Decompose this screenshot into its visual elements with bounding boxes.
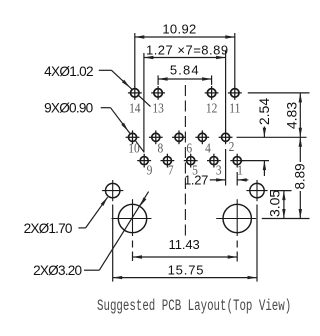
svg-text:7: 7 [168, 162, 174, 177]
pin number label 5 [192, 162, 198, 177]
pin number label 12 [206, 100, 217, 115]
pin number label 7 [168, 162, 174, 177]
extension line from pad 12 up to 5.84 dimension [211, 75, 213, 85]
extension line right of hole Φ3.20 datum [262, 218, 310, 220]
svg-text:14: 14 [129, 100, 141, 115]
extension line from pad 14 up to 10.92 dimension [134, 33, 136, 86]
pin number label 3 [216, 162, 222, 177]
mounting hole Φ3.20 right [216, 199, 256, 236]
extension line from pad 11 up to 10.92 dimension [234, 33, 236, 86]
pad pin 2 (Φ0.90) [219, 130, 233, 144]
svg-text:4XØ1.02: 4XØ1.02 [44, 64, 93, 79]
pin number label 14 [129, 100, 141, 115]
label 9XΦ0.90 [44, 101, 94, 116]
pad pin 4 (Φ0.90) [195, 130, 209, 144]
extension line below left Φ3.20 hole to 11.43 dimension [132, 241, 134, 262]
pin number label 8 [158, 140, 164, 155]
dimension 10.92 (top) [135, 21, 235, 38]
svg-text:10.92: 10.92 [162, 21, 196, 36]
extension line right of middle pad row datum [237, 136, 307, 138]
pin number label 10 [128, 140, 139, 155]
pin number label 6 [186, 140, 192, 155]
leader from label 9XΦ0.90 to pad 10 [101, 108, 145, 153]
mounting hole Φ1.70 right [246, 180, 267, 201]
svg-text:2: 2 [229, 139, 235, 154]
pad pin 7 (Φ0.90) [161, 154, 175, 168]
svg-text:4.83: 4.83 [284, 102, 300, 129]
label 2XΦ3.20 [33, 263, 82, 278]
label 4XΦ1.02 [44, 64, 93, 79]
pin number label 9 [147, 162, 153, 177]
svg-text:2.54: 2.54 [256, 98, 272, 125]
pad pin 11 (Φ1.02) [228, 86, 242, 100]
dimension 2.54 (right) [256, 98, 272, 176]
pin number label 4 [205, 140, 211, 155]
extension line below right Φ3.20 hole to 11.43 dimension [236, 241, 238, 262]
svg-text:8: 8 [158, 140, 164, 155]
svg-text:8.89: 8.89 [293, 163, 308, 189]
pad pin 3 (Φ0.90) [207, 154, 221, 168]
dimension 11.43 (bottom) [133, 237, 238, 259]
svg-text:11: 11 [229, 100, 240, 115]
extension line right of pad 1 (row 1 datum) [240, 160, 269, 162]
leader from label 2XΦ3.20 through left Φ3.20 hole [84, 192, 149, 271]
pin number label 13 [152, 100, 163, 115]
pad pin 9 (Φ0.90) [137, 154, 151, 168]
pin number label 2 [229, 139, 235, 154]
svg-text:3.05: 3.05 [267, 190, 283, 217]
svg-text:13: 13 [152, 100, 163, 115]
svg-text:11.43: 11.43 [169, 237, 200, 252]
svg-text:15.75: 15.75 [168, 262, 205, 277]
svg-text:Suggested PCB Layout(Top View): Suggested PCB Layout(Top View) [97, 297, 291, 314]
pin number label 1 [237, 162, 243, 177]
mounting hole Φ3.20 left [112, 199, 152, 236]
leader from label 4XΦ1.02 to pad 14 [99, 70, 151, 106]
svg-text:1: 1 [237, 162, 243, 177]
extension line below pad 2 for 1.27 dimension [225, 149, 227, 186]
dimension 5.84 [158, 63, 212, 81]
caption Suggested PCB Layout(Top View) [97, 297, 291, 314]
extension line from pad 9 up to 8.89 dimension [143, 53, 145, 152]
pad pin 10 (Φ0.90) [126, 130, 140, 144]
vertical dashed center line [184, 85, 186, 236]
extension line right of hole Φ1.70 datum [270, 190, 292, 192]
dimension 15.75 (bottom) [113, 262, 257, 279]
pad pin 5 (Φ0.90) [184, 154, 198, 168]
svg-text:6: 6 [186, 140, 192, 155]
extension line from pad 13 up to 5.84 dimension [157, 75, 159, 85]
svg-text:4: 4 [205, 140, 211, 155]
svg-text:9XØ0.90: 9XØ0.90 [44, 101, 94, 116]
dimension 1.27×7=8.89 [144, 42, 229, 59]
svg-text:2XØ1.70: 2XØ1.70 [24, 221, 73, 236]
extension line right of pad 11 (row 11 datum) [248, 92, 310, 94]
dimension 1.27 (pin pitch) [184, 173, 248, 188]
extension line below left Φ1.70 hole to 15.75 dimension [112, 205, 114, 282]
dimension 4.83 (right) [284, 93, 302, 137]
pad pin 13 (Φ1.02) [151, 86, 165, 100]
mounting hole Φ1.70 left [102, 180, 123, 201]
svg-text:9: 9 [147, 162, 153, 177]
dimension 3.05 (right) [267, 190, 286, 219]
svg-text:5: 5 [192, 162, 198, 177]
pad pin 14 (Φ1.02) [128, 86, 142, 100]
label 2XΦ1.70 [24, 221, 73, 236]
pad pin 6 (Φ0.90) [172, 130, 186, 144]
svg-text:12: 12 [206, 100, 217, 115]
svg-text:3: 3 [216, 162, 222, 177]
pad pin 1 (Φ0.90) [230, 154, 244, 168]
pad pin 12 (Φ1.02) [205, 86, 219, 100]
svg-text:10: 10 [128, 140, 139, 155]
extension line below pad 1 for 1.27 dimension [236, 172, 238, 186]
leader from label 2XΦ1.70 to left Φ1.70 hole [78, 197, 107, 228]
extension line from pad 2 up to 8.89 dimension [225, 51, 227, 131]
svg-text:2XØ3.20: 2XØ3.20 [33, 263, 82, 278]
pad pin 8 (Φ0.90) [149, 130, 163, 144]
svg-text:1.27 ×7=8.89: 1.27 ×7=8.89 [146, 42, 229, 57]
extension line below right Φ1.70 hole to 15.75 dimension [256, 205, 258, 282]
svg-text:5.84: 5.84 [170, 63, 200, 78]
pin number label 11 [229, 100, 240, 115]
dimension 8.89 (right) [293, 137, 308, 218]
